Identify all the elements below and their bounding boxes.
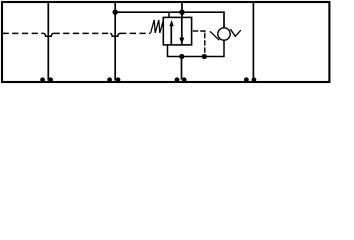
port pair 4 dots bbox=[244, 77, 249, 82]
node: junction dot at top line / vertical 2 bbox=[113, 10, 118, 15]
port pair 1 dots bbox=[40, 77, 45, 82]
check valve seat line left bbox=[210, 31, 219, 40]
wire: vertical channel line 1 bbox=[47, 2, 49, 81]
flow path arrow up inside valve box bbox=[170, 24, 172, 45]
pilot line hop over vertical 2 bbox=[110, 33, 120, 36]
wire: stub from top line to valve box top bbox=[168, 12, 170, 18]
port pair 3 dots bbox=[175, 77, 180, 82]
pilot line dashed run 2 bbox=[53, 32, 110, 34]
pilot line: main dashed line with crossing hops bbox=[3, 32, 44, 34]
port pair 2 dots bbox=[107, 77, 112, 82]
pilot line dashed run 3 bbox=[120, 32, 151, 34]
wire: from top line corner down to check valve bbox=[223, 11, 225, 28]
check valve spring tick right bbox=[230, 29, 241, 36]
node: junction dot at top line / valve feed bbox=[179, 10, 184, 15]
pilot line: dashed from valve box right side, corner down to drain line bbox=[193, 30, 199, 32]
plate outline (manifold body) bbox=[2, 2, 329, 82]
wire: from bottom line up to check valve bottom bbox=[223, 40, 225, 57]
wire: top horizontal line bbox=[115, 11, 224, 13]
wire: valve box bottom stub down bbox=[167, 45, 169, 57]
wire: vertical channel line 4 bbox=[252, 2, 254, 81]
flow path arrow down inside valve box bbox=[181, 17, 183, 44]
wire: vertical line from top border into valve box bbox=[181, 2, 183, 18]
check valve CV1: ball bbox=[218, 28, 230, 40]
node: junction dot bottom line / pilot drain bbox=[202, 54, 207, 59]
wire: vertical channel line 2 bbox=[114, 2, 116, 81]
spring of relief valve (zigzag at left of box) bbox=[151, 20, 164, 33]
wire: bottom horizontal line under valve bbox=[167, 56, 224, 58]
wire: drop line to bottom port bbox=[181, 57, 183, 80]
pilot line hop over vertical 1 bbox=[44, 33, 54, 36]
valve body: pressure relief valve box bbox=[163, 17, 191, 45]
node: junction dot bottom line / drop line bbox=[179, 54, 184, 59]
